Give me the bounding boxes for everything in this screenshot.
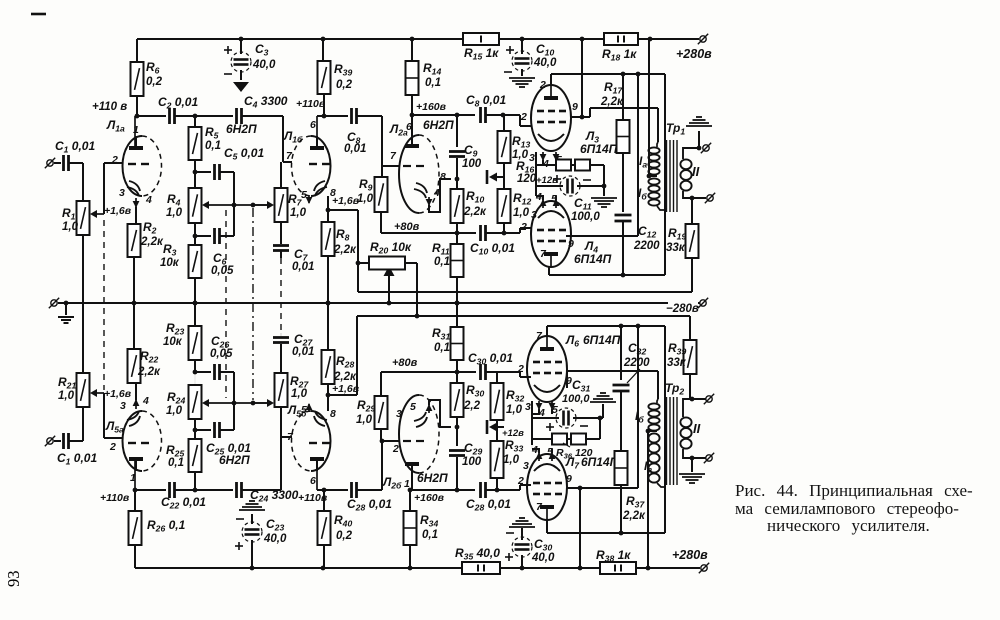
svg-text:2,2к: 2,2к <box>600 96 624 108</box>
wire rail to primary tap bottom <box>647 431 649 568</box>
wire C30 to grid Л6 <box>486 372 531 377</box>
wire C8 to grid Л3 <box>486 113 532 126</box>
wiper arrow R27 <box>252 402 268 404</box>
svg-text:6П14П: 6П14П <box>580 142 618 156</box>
svg-text:10к: 10к <box>160 257 180 269</box>
caption Рис. 44 <box>735 481 973 535</box>
terminal secondary bottom <box>705 193 715 203</box>
resistor R11 0.1 <box>432 233 464 305</box>
transformer Tr1 secondary II <box>680 146 706 201</box>
wire feedback rail top (y292) <box>358 291 692 293</box>
svg-text:3: 3 <box>531 209 537 221</box>
wire C28 to grid Л2б <box>357 439 399 490</box>
svg-text:R38 1к: R38 1к <box>596 548 631 564</box>
wiper arrow R4 and balance line <box>202 201 270 209</box>
wire C28 to grid Л7 <box>486 485 531 492</box>
wire R1 to R21 through rail <box>82 235 84 373</box>
svg-text:C10 0,01: C10 0,01 <box>470 241 515 257</box>
svg-text:100,0: 100,0 <box>562 393 590 405</box>
svg-text:C2 0,01: C2 0,01 <box>158 95 198 111</box>
transformer Tr2 secondary II <box>680 397 706 461</box>
capacitor C10 40.0 electrolytic <box>504 39 532 76</box>
svg-text:33к: 33к <box>666 242 686 254</box>
ground symbol left <box>58 301 74 323</box>
cathode hook Л1a <box>127 181 140 224</box>
svg-text:2: 2 <box>520 221 527 233</box>
capacitor C30 40.0 electrolytic bottom left of Tr2 <box>505 533 555 568</box>
ground above secondary <box>686 117 712 148</box>
svg-text:C28 0,01: C28 0,01 <box>466 497 511 513</box>
svg-text:6: 6 <box>310 119 316 131</box>
svg-text:40,0: 40,0 <box>252 59 276 71</box>
potentiometer R20 10k <box>358 240 417 270</box>
pin labels Л4 <box>520 191 574 260</box>
tube Л1б half-triode 6N2P <box>292 116 331 196</box>
tube Л5a half-triode 6N2P <box>123 411 162 490</box>
wire R20 right to feedback rail bottom <box>415 263 420 318</box>
wiper arrow R21 <box>96 392 104 394</box>
svg-text:1,0: 1,0 <box>62 221 79 233</box>
resistor R39 0.2 <box>318 39 353 94</box>
resistor R32 1.0 <box>491 372 525 427</box>
wire rail to primary tap <box>648 39 650 176</box>
capacitor C24 3300 <box>237 482 299 504</box>
svg-text:6Н2П: 6Н2П <box>226 122 257 136</box>
ground below C10 <box>509 78 535 87</box>
resistor R34 0.1 <box>404 490 439 568</box>
capacitor C8 0.01 (left) <box>344 108 366 155</box>
resistor R35 <box>455 546 500 574</box>
svg-text:0,1: 0,1 <box>205 140 221 152</box>
resistor R18 1k <box>602 33 638 63</box>
svg-text:0,1: 0,1 <box>425 77 441 89</box>
wiper arrow R24 and balance line bottom <box>202 399 270 407</box>
svg-text:0,2: 0,2 <box>336 530 353 542</box>
cathode hook Л2б <box>414 400 451 427</box>
wire pin7 Л4 to bottom of cell <box>549 267 665 277</box>
resistor R31 0.1 <box>432 303 464 372</box>
tube Л7 pentode 6P14P <box>527 454 567 520</box>
resistor R16 120 <box>516 159 604 185</box>
wire C24 to grid Л5б <box>242 437 292 490</box>
wire R22 to ground rail <box>133 303 135 349</box>
capacitor C26 0.05 <box>193 334 234 403</box>
svg-text:C28 0,01: C28 0,01 <box>347 497 392 513</box>
resistor R29 1.0 <box>356 396 388 441</box>
capacitor C22 0.01 <box>161 482 206 511</box>
svg-text:1,0: 1,0 <box>291 388 308 400</box>
svg-text:5: 5 <box>410 401 416 413</box>
terminal +280V bottom <box>672 548 709 573</box>
capacitor C12 2200 <box>615 153 661 275</box>
wire R20 wiper to rail <box>384 266 395 303</box>
svg-text:2,2к: 2,2к <box>137 366 161 378</box>
svg-text:10к: 10к <box>163 336 183 348</box>
svg-text:8: 8 <box>330 408 336 420</box>
wire anode node Л5б +110V bottom <box>298 488 348 511</box>
svg-text:1,0: 1,0 <box>166 207 183 219</box>
svg-text:C22 0,01: C22 0,01 <box>161 495 206 511</box>
wire anode node Л1б +110V <box>296 94 348 118</box>
svg-text:6П14П: 6П14П <box>583 333 621 347</box>
svg-text:1,0: 1,0 <box>503 454 520 466</box>
svg-text:R18 1к: R18 1к <box>602 47 637 63</box>
resistor R12 1.0 <box>498 177 532 235</box>
wire R8 node down to feedback rail top <box>356 210 361 292</box>
resistor R14 0.1 <box>406 39 442 115</box>
transformer Tr1 core <box>667 140 678 212</box>
wire R26 feed <box>134 490 136 511</box>
capacitor C28 0.01 (right) <box>466 482 511 513</box>
wire primary bottom cell right side <box>664 326 666 533</box>
wire C10 to grid Л4 <box>486 228 532 233</box>
svg-text:C25 0,01: C25 0,01 <box>206 441 251 457</box>
wire anode node Л5a +110V <box>100 488 166 504</box>
svg-text:+280в: +280в <box>672 548 708 562</box>
wire R29 to +80V bottom line <box>380 372 382 396</box>
pin labels Л7 <box>517 444 572 513</box>
svg-text:+280в: +280в <box>676 47 712 61</box>
svg-text:1,0: 1,0 <box>357 193 374 205</box>
tube Л2б half-triode 6N2P <box>399 395 439 490</box>
resistor R1 1.0 volume pot <box>62 201 90 235</box>
svg-text:1,0: 1,0 <box>506 404 523 416</box>
tube label Л2a <box>389 118 454 138</box>
capacitor C6 0.05 <box>193 205 234 277</box>
svg-text:9: 9 <box>566 473 572 485</box>
tube Л2a half-triode 6N2P <box>399 115 439 213</box>
wire +160V to C8 <box>412 114 475 116</box>
resistor R3 10k <box>160 223 202 305</box>
svg-text:100,0: 100,0 <box>571 211 600 223</box>
cathode hook Л2a <box>414 179 451 212</box>
tube Л5б half-triode 6N2P <box>292 411 331 490</box>
wire anode Л3 pin9 <box>571 108 658 142</box>
pin labels Л2б <box>392 401 416 490</box>
resistor R22 2.2k <box>128 349 161 383</box>
resistor R36 120 <box>532 418 600 461</box>
wire +80V line top <box>381 221 476 233</box>
svg-text:II: II <box>693 421 701 436</box>
svg-text:0,01: 0,01 <box>292 346 314 358</box>
gang dash link R7-R27 through C7 C27 <box>280 258 282 333</box>
svg-text:3: 3 <box>529 152 535 164</box>
tube Л3 pentode 6P14P <box>531 85 571 151</box>
svg-text:0,2: 0,2 <box>336 79 353 91</box>
tube label Л4 6P14P <box>574 239 612 266</box>
svg-text:33к: 33к <box>667 357 687 369</box>
resistor R10 2.2k trimmer <box>451 179 487 235</box>
capacitor C4 3300 <box>237 94 288 124</box>
svg-text:+80в: +80в <box>392 357 418 369</box>
terminal input top <box>45 158 61 168</box>
svg-text:R20 10к: R20 10к <box>370 240 412 256</box>
svg-text:+12в: +12в <box>502 428 524 439</box>
tube label Л2б <box>382 471 448 491</box>
resistor R39 33k <box>667 316 697 399</box>
svg-text:6П14П: 6П14П <box>574 252 612 266</box>
trimmer arrow R10 <box>487 170 504 184</box>
transformer Tr2 primary <box>646 399 665 487</box>
resistor R6 0.2 <box>131 39 163 116</box>
cathode arrows Л4 <box>536 196 559 208</box>
wire top +280V rail <box>137 37 699 42</box>
svg-text:5: 5 <box>301 189 307 201</box>
tube label Л7 6P14P <box>565 455 619 471</box>
cathode hook Л5б <box>306 403 327 426</box>
svg-text:R15 1к: R15 1к <box>464 46 499 62</box>
resistor R9 1.0 <box>357 166 388 212</box>
label C10 40.0 <box>533 42 557 69</box>
svg-text:R26 0,1: R26 0,1 <box>147 518 186 534</box>
svg-text:0,1: 0,1 <box>434 342 450 354</box>
svg-text:+12в: +12в <box>536 175 558 186</box>
svg-text:100: 100 <box>462 456 482 468</box>
svg-text:100: 100 <box>462 158 482 170</box>
capacitor C11 100.0 electrolytic <box>536 175 606 223</box>
wiper arrow R7 <box>252 204 268 206</box>
wire C2 to C4 <box>175 114 233 119</box>
wire grid Л5a <box>104 393 123 438</box>
wire pin7 Л6 up to top of cell <box>547 324 665 336</box>
svg-text:1: 1 <box>130 472 136 484</box>
wire R28 node up to feedback rail bottom <box>356 316 358 395</box>
resistor R8 2.2k <box>322 210 357 305</box>
resistor R24 1.0 pot <box>166 385 202 430</box>
resistor R40 0.2 <box>318 511 353 568</box>
svg-text:2: 2 <box>392 443 399 455</box>
ground above C30 <box>509 518 535 540</box>
wire C22 to C24 <box>175 488 233 493</box>
wire cathode Л5б to R28 <box>326 393 357 411</box>
capacitor C32 2200 <box>613 326 651 451</box>
resistor R13 1.0 <box>498 115 531 177</box>
svg-text:2: 2 <box>111 154 118 166</box>
svg-text:1,0: 1,0 <box>58 390 75 402</box>
svg-text:2: 2 <box>520 111 527 123</box>
svg-text:3: 3 <box>120 400 126 412</box>
svg-text:1: 1 <box>133 124 139 136</box>
pin labels Л3 <box>520 79 578 170</box>
wire anode Л6 pin9 <box>567 371 658 399</box>
capacitor C1 0.01 input bottom <box>57 407 97 467</box>
capacitor C31 100.0 electrolytic <box>532 378 602 431</box>
capacitor C23 40.0 electrolytic <box>235 514 287 568</box>
resistor R25 0.1 <box>166 430 202 490</box>
transformer Tr1 primary <box>647 142 665 210</box>
svg-text:C4 3300: C4 3300 <box>244 94 288 110</box>
corner mark <box>31 13 46 16</box>
tube Л1a half-triode 6N2P <box>123 116 162 196</box>
resistor R38 1k <box>596 548 636 574</box>
capacitor C9 100 <box>449 113 482 182</box>
svg-text:+1,6в: +1,6в <box>332 383 360 395</box>
capacitor C29 100 <box>449 425 482 493</box>
svg-text:+1,6в: +1,6в <box>104 388 132 400</box>
resistor R28 2.2k <box>322 303 357 395</box>
svg-text:0,01: 0,01 <box>292 261 314 273</box>
svg-text:+80в: +80в <box>394 221 420 233</box>
wire +160V to C28 right <box>410 489 475 491</box>
resistor R19 33k <box>666 198 699 292</box>
wire anode Л7 pin9 line <box>567 486 638 491</box>
svg-text:120: 120 <box>517 173 537 185</box>
wire anode node Л1a +110V <box>135 114 166 119</box>
resistor R27 1.0 pot <box>275 373 310 437</box>
wire anode Л7 riser to top of cell <box>637 326 639 488</box>
capacitor C1 0.01 input top <box>55 139 95 171</box>
wire feedback rail bottom (y316) <box>357 315 690 317</box>
svg-text:1,0: 1,0 <box>513 207 530 219</box>
svg-text:C1 0,01: C1 0,01 <box>57 451 97 467</box>
svg-text:2,2к: 2,2к <box>140 236 164 248</box>
terminal +280V top <box>676 34 712 61</box>
terminal ground rail left <box>49 298 66 308</box>
svg-text:1,0: 1,0 <box>290 207 307 219</box>
svg-text:II: II <box>692 164 700 179</box>
svg-text:+110в: +110в <box>296 98 326 110</box>
svg-text:2: 2 <box>109 441 116 453</box>
wire anode Л4 to primary <box>566 74 638 236</box>
svg-text:9: 9 <box>568 238 574 250</box>
resistor R2 2.2k <box>128 220 164 257</box>
pin labels Л5б <box>287 404 336 487</box>
wire R2 to ground rail <box>133 257 135 303</box>
capacitor C25 0.01 <box>193 403 252 457</box>
gang dashed link R1-R21 <box>103 220 105 390</box>
ground of C31 R36 bottom cell <box>590 393 616 402</box>
ground of R16 C11 <box>591 198 617 207</box>
tube label Л3 6P14P <box>580 129 618 156</box>
tube Л6 pentode 6P14P <box>527 336 567 402</box>
svg-text:Рис. 44. Принципиальная схе-: Рис. 44. Принципиальная схе- <box>735 481 973 500</box>
svg-text:2: 2 <box>517 475 524 487</box>
svg-text:6Н2П: 6Н2П <box>417 471 448 485</box>
resistor R5 0.1 <box>189 116 222 172</box>
capacitor C27 0.01 <box>273 332 314 373</box>
svg-text:2,2к: 2,2к <box>333 244 357 256</box>
gang dashed link R4-R24 <box>225 210 227 398</box>
wire R9 to +80V line <box>380 212 382 233</box>
svg-text:2,2к: 2,2к <box>333 371 357 383</box>
svg-text:2: 2 <box>517 363 524 375</box>
svg-text:4: 4 <box>433 187 440 199</box>
svg-text:0,01: 0,01 <box>344 143 366 155</box>
svg-text:9: 9 <box>572 101 578 113</box>
resistor R7 1.0 pot <box>275 162 307 222</box>
resistor R23 10k <box>163 303 202 385</box>
capacitor C7 0.01 <box>273 222 314 273</box>
pin labels Л1б <box>286 119 336 201</box>
terminal -280V <box>698 298 708 308</box>
svg-text:+110в: +110в <box>100 492 130 504</box>
svg-text:C30 0,01: C30 0,01 <box>468 351 513 367</box>
capacitor C3 40.0 electrolytic <box>224 39 276 92</box>
pin labels Л6 <box>517 330 572 419</box>
svg-text:3: 3 <box>525 401 531 413</box>
svg-text:+1,6в: +1,6в <box>104 205 132 217</box>
tube Л4 pentode 6P14P <box>531 201 571 267</box>
ground below secondary Tr2 <box>679 458 705 483</box>
svg-text:2,2: 2,2 <box>463 400 481 412</box>
pin labels Л2a <box>390 121 446 199</box>
svg-text:2200: 2200 <box>633 240 660 252</box>
svg-text:4: 4 <box>142 395 149 407</box>
svg-text:2200: 2200 <box>623 357 650 369</box>
svg-text:6Н2П: 6Н2П <box>423 118 454 132</box>
svg-text:+160в: +160в <box>416 101 447 113</box>
svg-text:0,1: 0,1 <box>168 457 184 469</box>
capacitor C30 0.01 <box>468 351 513 380</box>
gang dash-dot link balance <box>252 208 254 400</box>
wire pin2 Л3 to R17 line <box>551 72 665 85</box>
junction dots middle rail <box>132 301 460 306</box>
resistor R26 0.1 <box>129 490 186 568</box>
wire +280V bottom rail to anode line Л7 <box>579 488 581 568</box>
svg-text:3: 3 <box>119 187 125 199</box>
node +160V <box>410 101 447 117</box>
cathode arrows Л6 <box>532 401 555 445</box>
resistor R33 1.0 <box>491 427 524 490</box>
cathode arrows Л3 <box>536 152 559 196</box>
wire C31 to ground above <box>602 404 604 418</box>
resistor R30 2.2 trimmer <box>451 372 485 427</box>
svg-text:R35 40,0: R35 40,0 <box>455 546 500 562</box>
terminal secondary top bottom-cell <box>704 394 714 404</box>
trimmer arrow R30 <box>487 420 504 434</box>
tube label Л6 6P14P <box>565 333 621 349</box>
capacitor C10 0.01 <box>470 225 515 257</box>
wire C4 to grid Л1б <box>242 116 292 162</box>
terminal secondary top <box>701 143 711 153</box>
svg-text:0,05: 0,05 <box>210 348 233 360</box>
svg-text:40,0: 40,0 <box>531 552 555 564</box>
svg-text:0,05: 0,05 <box>211 265 234 277</box>
svg-text:+160в: +160в <box>414 492 445 504</box>
wire C1 to R1 <box>82 163 84 201</box>
wire main middle rail <box>66 302 668 304</box>
svg-text:3: 3 <box>523 460 529 472</box>
svg-text:C8 0,01: C8 0,01 <box>466 93 506 109</box>
node +160V bottom <box>408 488 445 504</box>
wire +80V line bottom <box>381 357 497 374</box>
pin labels Л5a <box>109 395 149 484</box>
svg-text:+110в: +110в <box>298 492 328 504</box>
transformer Tr2 core <box>667 397 678 485</box>
capacitor C28 0.01 (left) <box>347 482 392 513</box>
svg-text:3: 3 <box>396 408 402 420</box>
resistor R4 1.0 pot <box>166 172 202 223</box>
svg-text:+1,6в: +1,6в <box>332 195 360 207</box>
wire C7 C27 gang column solid parts <box>280 333 282 336</box>
pin labels Л1a <box>111 124 152 206</box>
cathode hook Л1б <box>306 181 327 204</box>
svg-text:0,1: 0,1 <box>422 529 438 541</box>
svg-text:2,2к: 2,2к <box>463 206 487 218</box>
resistor R21 1.0 volume pot bottom <box>58 373 90 407</box>
svg-text:нического усилителя.: нического усилителя. <box>767 516 930 535</box>
wire bottom +280V rail <box>135 566 700 571</box>
svg-text:1,0: 1,0 <box>356 414 373 426</box>
svg-text:93: 93 <box>4 571 23 588</box>
terminal secondary bottom bottom-cell <box>704 453 714 463</box>
svg-text:6П14П: 6П14П <box>581 455 619 469</box>
svg-text:1,0: 1,0 <box>166 405 183 417</box>
svg-text:−280в: −280в <box>666 303 699 315</box>
wire C8 to grid Л2a <box>357 116 399 166</box>
svg-text:C5 0,01: C5 0,01 <box>224 146 264 162</box>
wire grid Л1a <box>104 163 123 214</box>
